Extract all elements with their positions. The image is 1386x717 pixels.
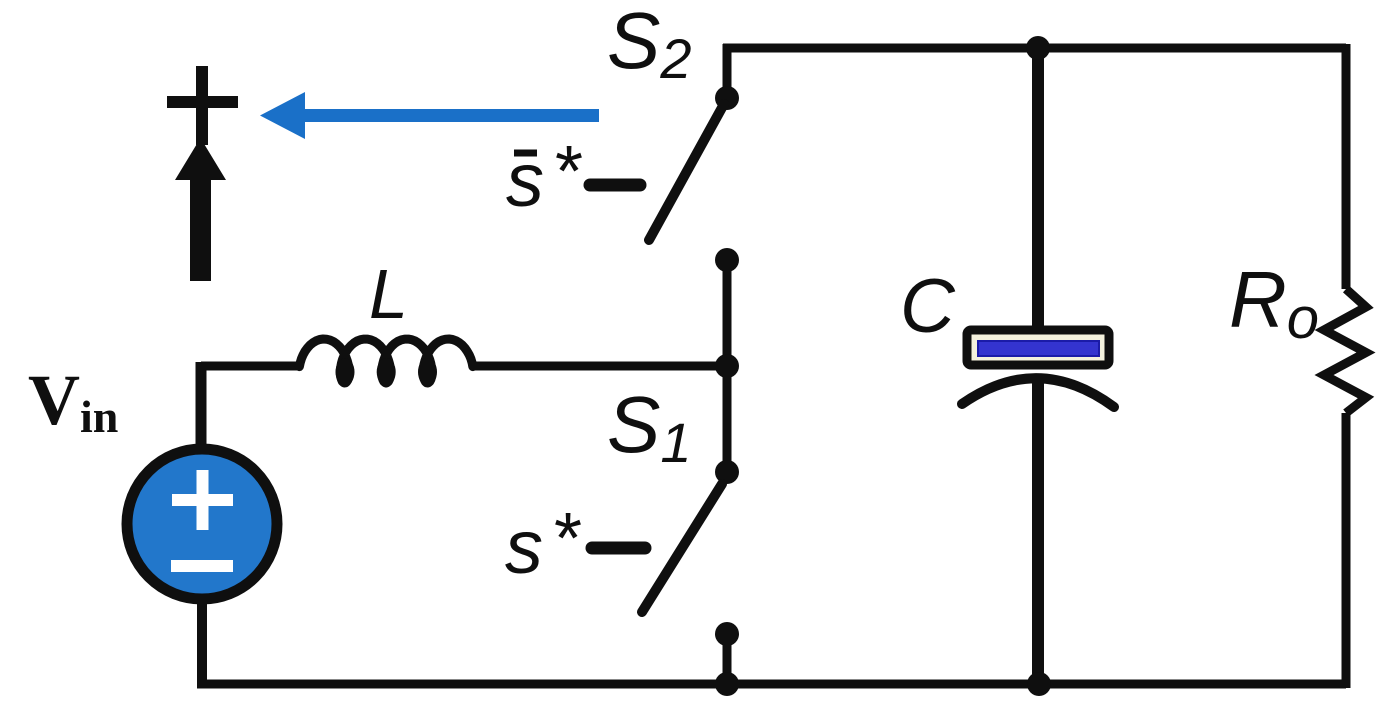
resistor Ro zigzag [1324,289,1366,413]
wire inductor left [201,362,302,371]
wire S1 bottom stub [723,634,732,684]
wire capacitor top stub [1032,44,1044,330]
node capacitor bottom junction [1027,672,1051,696]
svg-text:Vin: Vin [28,360,118,442]
inductor L coil [299,339,472,383]
switch S2 blade [649,104,724,240]
svg-text:Ro: Ro [1229,255,1319,351]
node S2 top contact [715,86,739,110]
svg-text:*: * [555,132,583,212]
svg-text:S2: S2 [607,0,692,90]
node S1 bottom contact [715,622,739,646]
svg-text:S1: S1 [607,380,692,474]
wire right rail lower [1342,413,1351,688]
wire left rail bottom [197,600,207,688]
current direction plus cross [167,66,238,145]
capacitor C top plate outer [967,330,1109,365]
wire top rail [723,44,1346,53]
voltage source Vin circle [127,449,277,599]
svg-text:C: C [900,264,956,349]
node bottom junction switch [715,672,739,696]
switch S1 blade [642,484,722,612]
wire capacitor bottom stub [1032,382,1044,688]
voltage source minus sign [171,560,233,572]
wire bottom rail [197,680,1346,689]
node capacitor top junction [1026,36,1050,60]
wire left rail top [196,362,207,448]
current direction arrow up [175,138,226,281]
wire switch column upper [723,260,732,366]
node S2 bottom contact [715,248,739,272]
svg-text:*: * [554,499,582,579]
node mid junction [715,354,739,378]
capacitor C bottom plate arc [962,378,1114,407]
wire right rail upper [1342,44,1351,289]
wire switch column lower [723,366,732,471]
voltage source plus sign [172,470,233,530]
svg-text:L: L [369,255,408,333]
output current blue arrow [260,92,599,139]
svg-text:s: s [505,505,543,590]
wire inductor right [472,362,727,371]
capacitor C top plate blue bar [978,341,1099,356]
wire S2 top stub [723,44,732,99]
node S1 top contact [715,460,739,484]
